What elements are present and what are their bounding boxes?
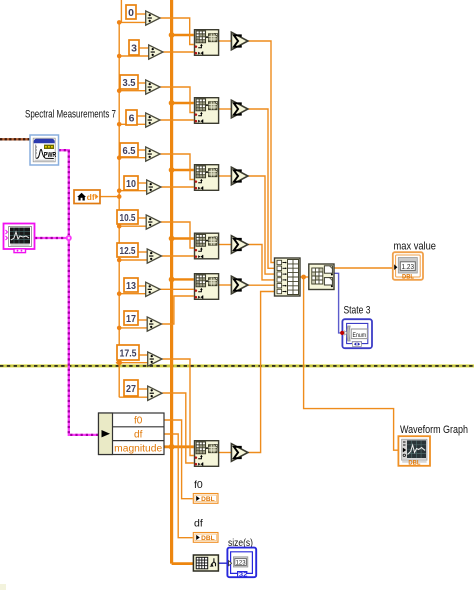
- wire: sum 6 to Build Array input 6: [248, 292, 275, 453]
- svg-text:DBL: DBL: [402, 274, 414, 281]
- svg-text:Spectral Measurements 7: Spectral Measurements 7: [25, 109, 116, 121]
- indicator Waveform Graph: [398, 436, 430, 466]
- wire: magnitude branch to array-subset 3: [172, 169, 194, 171]
- svg-text:0: 0: [128, 7, 134, 19]
- svg-text:6.5: 6.5: [123, 145, 136, 157]
- svg-text:27: 27: [126, 383, 136, 395]
- svg-text:13: 13: [126, 280, 136, 292]
- indicator df (DBL): [193, 533, 218, 543]
- build array: [275, 258, 301, 296]
- wire: error-in dashed (left edge to Spectral Measurements): [0, 138, 31, 140]
- array subset 3: [195, 165, 219, 191]
- wire: array-subset 2 to sum 2: [219, 108, 231, 110]
- wire: sum 4 to Build Array input 4: [248, 245, 275, 280]
- add array elements (sum) 4: [231, 236, 248, 254]
- numeric constant 6: [126, 110, 137, 125]
- divide function 11: [148, 352, 162, 366]
- array subset 4: [195, 233, 219, 259]
- wire: divide 9 output: [160, 288, 194, 290]
- wire: constant 2 to divide 2: [139, 47, 149, 49]
- coercion dot on State 3 input: [340, 331, 347, 335]
- wire: magnitude from Unbundle to array-subset 6: [164, 445, 194, 448]
- enum indicator State 3: [342, 319, 372, 348]
- indicator max value (DBL): [393, 252, 423, 280]
- svg-text:17: 17: [126, 313, 136, 325]
- array subset 5: [195, 274, 219, 300]
- add array elements (sum) 2: [231, 100, 248, 118]
- svg-text:f0: f0: [194, 479, 203, 491]
- numeric constant 6.5: [120, 143, 138, 157]
- unbundle by name (f0, df, magnitude): [99, 413, 165, 455]
- svg-text:max value: max value: [394, 241, 437, 253]
- svg-text:Waveform Graph: Waveform Graph: [400, 424, 468, 436]
- wire: constant 1 to divide 1: [136, 13, 146, 15]
- wire: cluster from graph terminal to junction: [35, 237, 69, 239]
- indicator size(s) (I32): [227, 548, 256, 579]
- svg-text:df: df: [87, 192, 95, 202]
- wire: Build Array output down to Waveform Graph: [304, 277, 399, 450]
- array subset 1: [195, 30, 219, 56]
- property node df: [74, 190, 100, 204]
- svg-text:f0: f0: [134, 416, 143, 427]
- wire: Array Size output (blue): [219, 562, 228, 564]
- divide function 9: [146, 282, 160, 296]
- divide function 10: [147, 317, 161, 331]
- wire: df distribution vertical: [119, 0, 121, 397]
- numeric constant 17.5: [117, 345, 139, 360]
- wire: divide 10 output: [162, 296, 194, 324]
- numeric constant 10.5: [117, 210, 138, 224]
- numeric constant 13: [124, 278, 138, 292]
- Spectral Measurements express VI: [30, 135, 59, 165]
- structure border (dashed frame edge): [0, 364, 474, 368]
- wire: df output to indicator: [164, 434, 193, 538]
- svg-text:10: 10: [126, 178, 136, 190]
- numeric constant 12.5: [117, 243, 138, 257]
- junctions on df vertical: [117, 20, 122, 330]
- wire: df branch to divide 11: [119, 362, 147, 364]
- wire: cluster from Spectral Measurements down to Unbundle: [59, 150, 99, 435]
- wire: df branch to divide 10: [119, 327, 147, 329]
- wire: df branch to divide 8: [119, 259, 147, 261]
- wire: magnitude branch to array-subset 2: [172, 102, 194, 104]
- wire: constant 4 to divide 4: [137, 115, 146, 117]
- svg-text:10.5: 10.5: [120, 212, 136, 224]
- divide function 1: [146, 11, 160, 25]
- svg-text:PWR: PWR: [44, 152, 57, 159]
- indicator f0 (DBL): [193, 494, 218, 504]
- divide function 12: [148, 386, 162, 400]
- wire: f0 output to indicator: [164, 420, 193, 499]
- divide function 3: [146, 80, 160, 94]
- corner of lower structure border: [0, 584, 6, 590]
- wire: df branch to divide 12: [119, 396, 147, 398]
- wire: array-subset 5 to sum 5: [219, 284, 231, 286]
- wire: sum 5 to Build Array input 5: [248, 284, 275, 286]
- numeric constant 3.5: [120, 75, 138, 89]
- svg-text:1.23: 1.23: [402, 264, 415, 271]
- wire: constant 5 to divide 5: [138, 149, 146, 151]
- wire: df branch to divide 9: [119, 293, 145, 295]
- svg-text:6: 6: [129, 112, 135, 124]
- wire: magnitude branch to array-subset 1: [172, 34, 194, 36]
- wire: df property node output: [100, 196, 119, 198]
- divide function 4: [146, 113, 160, 127]
- wire: array-subset 4 to sum 4: [219, 244, 231, 246]
- wire: sum 1 to Build Array input 1: [248, 41, 275, 263]
- svg-text:df: df: [194, 518, 203, 530]
- svg-text:magnitude: magnitude: [114, 443, 162, 454]
- divide function 6: [147, 180, 161, 194]
- numeric constant 10: [124, 176, 138, 190]
- wire: divide 12 output: [162, 393, 194, 463]
- wire: df branch to divide 5: [119, 157, 145, 159]
- wire: divide 8 output: [162, 255, 194, 257]
- numeric constant 17: [124, 311, 138, 325]
- wire: divide 5 output: [160, 154, 194, 180]
- wire: divide 4 output: [160, 119, 194, 121]
- wire: constant 12 to divide 12: [138, 388, 148, 390]
- wire: divide 7 output: [161, 222, 194, 248]
- svg-text:I32: I32: [237, 571, 249, 578]
- svg-text:12.5: 12.5: [120, 245, 136, 257]
- wire: magnitude branch to array-subset 4: [172, 237, 194, 239]
- wire: max value output: [334, 267, 393, 269]
- wire: divide 6 output: [161, 186, 194, 188]
- wire: df branch to divide 2: [119, 55, 148, 57]
- numeric constant 27: [124, 380, 138, 396]
- wire: constant 10 to divide 10: [138, 319, 147, 321]
- add array elements (sum) 3: [231, 167, 248, 185]
- svg-text:3.5: 3.5: [123, 77, 136, 89]
- add array elements (sum) 5: [231, 276, 248, 294]
- wire: magnitude branch to array-subset 5: [172, 278, 194, 280]
- svg-text:3: 3: [131, 42, 137, 54]
- wire: df branch to divide 3: [119, 90, 145, 92]
- array subset 2: [195, 98, 219, 124]
- wire: divide 11 output: [162, 359, 194, 456]
- add array elements (sum) 6: [231, 444, 248, 462]
- wire: constant 11 to divide 11: [139, 354, 148, 356]
- array size function: [193, 555, 218, 571]
- wire: constant 7 to divide 7: [138, 217, 146, 219]
- array subset 6: [195, 441, 219, 467]
- wire: constant 3 to divide 3: [138, 82, 146, 84]
- junction: Build Array output: [301, 275, 306, 280]
- svg-text:DBL: DBL: [408, 460, 420, 467]
- wire: constant 9 to divide 9: [138, 285, 146, 287]
- wire: sum 3 to Build Array input 3: [248, 176, 275, 274]
- wire: divide 1 output: [160, 18, 194, 45]
- wire: constant 6 to divide 6: [138, 182, 147, 184]
- array max and min: [309, 264, 334, 290]
- junction: magenta wire junction ring: [66, 235, 72, 241]
- svg-text:123: 123: [236, 559, 247, 566]
- svg-text:df: df: [134, 430, 143, 441]
- wire: Build Array output to Array Max&Min: [300, 276, 309, 278]
- cluster graph terminal: [4, 224, 35, 253]
- add array elements (sum) 1: [231, 32, 248, 50]
- wire: array-subset 3 to sum 3: [219, 175, 231, 177]
- divide function 8: [147, 249, 161, 263]
- wire: constant 8 to divide 8: [138, 251, 147, 253]
- wire: df branch to divide 4: [119, 123, 145, 125]
- tunnel: df wire through structure border: [116, 359, 123, 366]
- numeric constant 3: [129, 40, 139, 55]
- wire: divide 3 output: [160, 87, 194, 113]
- wire: df branch to divide 1: [119, 21, 145, 23]
- wire: divide 2 output: [163, 51, 194, 53]
- wire: df branch to divide 6: [119, 190, 146, 192]
- wire: array-subset 1 to sum 1: [219, 40, 231, 42]
- wire: magnitude to Array Size: [172, 562, 194, 565]
- numeric constant 0: [126, 5, 136, 19]
- wire: max index (blue) to State 3: [334, 273, 342, 333]
- svg-text:State 3: State 3: [344, 305, 371, 317]
- wire: df branch to divide 7: [119, 225, 146, 227]
- divide function 5: [146, 147, 160, 161]
- divide function 2: [149, 45, 163, 59]
- wire: array-subset 6 to sum 6: [219, 452, 231, 454]
- wire: magnitude array main vertical (thick): [170, 0, 173, 564]
- svg-text:17.5: 17.5: [120, 347, 137, 359]
- wire: sum 2 to Build Array input 2: [248, 109, 275, 268]
- divide function 7: [146, 215, 160, 229]
- svg-text:Enum: Enum: [353, 332, 367, 339]
